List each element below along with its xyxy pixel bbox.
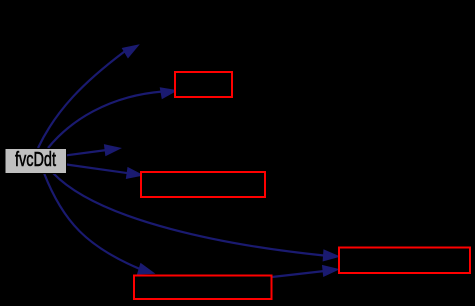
svg-text:fvcDdt: fvcDdt — [15, 149, 56, 171]
arrowhead into node E (lower) — [323, 264, 340, 276]
arrowhead into node1 — [122, 40, 141, 57]
node D red box — [134, 276, 272, 300]
node C red box — [141, 172, 265, 197]
node B red box — [175, 72, 232, 97]
wire fvcDdt to node1 (top) — [38, 52, 125, 149]
node fvcDdt — [5, 149, 67, 174]
arrowhead into node5 (box E upper) — [323, 250, 339, 262]
arrowhead into node4 — [126, 168, 143, 181]
wire fvcDdt to node4 (red box C) — [67, 165, 129, 174]
wire fvcDdt to node2 (red box B) — [48, 92, 163, 149]
wire node D to node E — [272, 271, 325, 277]
arrowhead into node6 — [138, 264, 156, 279]
wire fvcDdt to node3 (short, invisible box) — [67, 150, 107, 155]
arrowhead into node2 — [160, 85, 177, 98]
arrowhead into node3 — [104, 143, 121, 156]
node E red box — [339, 248, 470, 274]
wire fvcDdt to node5 (red box E, long curve) — [53, 173, 325, 256]
wire fvcDdt to node6 (red box D) — [44, 173, 141, 269]
